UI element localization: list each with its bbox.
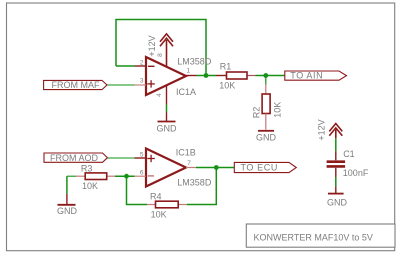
svg-text:R4: R4 <box>150 191 162 201</box>
resistor R2 <box>262 85 270 130</box>
svg-text:R2: R2 <box>252 107 262 119</box>
node junction R3/pin6 <box>124 174 129 179</box>
svg-text:10K: 10K <box>219 81 235 91</box>
wire +12V to C1 <box>335 138 337 151</box>
ground IC1A <box>158 113 176 122</box>
wire pin2 IC1A <box>116 65 135 67</box>
svg-text:+12V: +12V <box>317 119 327 140</box>
svg-text:R3: R3 <box>81 164 93 174</box>
svg-text:GND: GND <box>57 206 78 216</box>
wire R3 net to pin6 <box>67 175 76 177</box>
svg-text:7: 7 <box>187 160 191 167</box>
svg-text:+12V: +12V <box>147 35 157 56</box>
wire R1 to TO AIN <box>256 75 286 77</box>
wire R4 to output junction <box>187 168 216 205</box>
wire IC1A output to R1 <box>197 75 217 77</box>
node junction R1/R2 <box>263 73 268 78</box>
pennant FROM MAF <box>44 80 107 89</box>
ground C1 <box>328 186 344 193</box>
svg-text:GND: GND <box>157 123 178 133</box>
svg-text:C1: C1 <box>343 149 355 159</box>
svg-text:8: 8 <box>157 53 164 57</box>
svg-text:6: 6 <box>140 170 144 177</box>
svg-text:FROM MAF: FROM MAF <box>52 80 100 90</box>
wire junction to R2 <box>265 76 267 85</box>
wire FROM AOD to pin5 <box>108 157 135 159</box>
svg-text:IC1B: IC1B <box>176 148 196 158</box>
pennant TO ECU <box>234 162 296 172</box>
supply +12V C1 <box>329 124 342 139</box>
svg-text:1: 1 <box>187 67 191 74</box>
resistor R3 <box>76 173 115 180</box>
ground R3 <box>58 194 76 205</box>
svg-text:3: 3 <box>140 78 144 85</box>
wire IC1B output <box>196 167 235 169</box>
pin 4 wire / gnd stub IC1A <box>166 85 168 105</box>
svg-text:TO ECU: TO ECU <box>241 163 278 173</box>
svg-text:2: 2 <box>140 60 144 67</box>
wire C1 to GND <box>335 177 337 186</box>
node junction IC1B output <box>214 165 219 170</box>
wire feedback loop IC1A <box>116 20 206 76</box>
svg-text:10K: 10K <box>272 102 282 118</box>
pennant FROM AOD <box>44 153 108 162</box>
svg-text:KONWERTER MAF10V to 5V: KONWERTER MAF10V to 5V <box>254 233 373 243</box>
svg-text:LM358D: LM358D <box>177 178 212 188</box>
pennant TO AIN <box>285 71 347 80</box>
supply +12V IC1A <box>160 34 173 67</box>
svg-text:FROM AOD: FROM AOD <box>50 153 99 163</box>
svg-text:10K: 10K <box>151 210 167 220</box>
ground R2 <box>258 130 274 132</box>
title box <box>246 224 395 247</box>
wire junction down to R4 <box>127 176 148 204</box>
svg-text:100nF: 100nF <box>343 168 369 178</box>
svg-text:TO AIN: TO AIN <box>290 71 323 81</box>
op-amp U IC1B <box>135 149 196 187</box>
svg-text:IC1A: IC1A <box>176 87 196 97</box>
wire FROM MAF to pin3 <box>107 84 135 86</box>
resistor R1 <box>216 72 256 79</box>
wire gnd segment <box>166 105 168 113</box>
svg-text:R1: R1 <box>220 62 232 72</box>
svg-text:GND: GND <box>256 132 277 142</box>
wire R3 left to GND <box>66 176 68 194</box>
svg-text:GND: GND <box>327 198 348 208</box>
op-amp U IC1A <box>135 57 197 95</box>
svg-text:LM358D: LM358D <box>177 57 212 67</box>
svg-text:5: 5 <box>140 152 144 159</box>
svg-text:4: 4 <box>156 93 163 97</box>
node junction IC1A output <box>204 73 209 78</box>
capacitor C1 <box>327 151 346 177</box>
svg-text:10K: 10K <box>82 181 98 191</box>
resistor R4 <box>147 201 187 208</box>
